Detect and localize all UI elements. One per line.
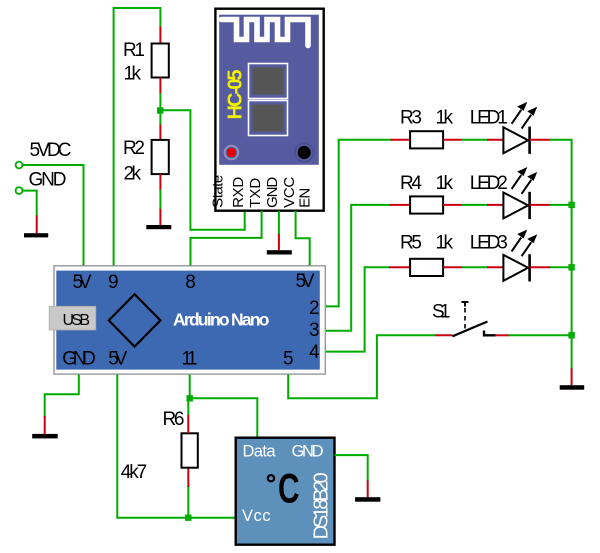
svg-text:Data: Data: [243, 443, 277, 461]
wire red ground lead Arduino GND: [44, 416, 46, 434]
wire junction to RXD column: [160, 110, 245, 229]
wire red anode lead LED2: [487, 204, 503, 206]
LED3 cathode bar: [528, 254, 531, 281]
diode LED1 triangle: [503, 127, 528, 153]
LED1 arrow 2: [522, 107, 537, 128]
wire red bottom lead R1: [159, 78, 161, 95]
wire R2 bottom green: [159, 190, 161, 210]
svg-text:GND: GND: [264, 177, 281, 208]
svg-text:GND: GND: [62, 349, 96, 370]
HC-05 PCB: [219, 15, 319, 165]
wire LED2 to right rail: [550, 204, 572, 206]
HC-05 chip 2 outline: [249, 101, 288, 136]
wire red ground lead DS18B20: [367, 480, 369, 497]
svg-text:State: State: [210, 175, 227, 208]
node junction R6 bottom: [185, 515, 191, 521]
svg-text:5VDC: 5VDC: [30, 140, 72, 161]
svg-text:5: 5: [283, 349, 294, 370]
svg-text:4: 4: [309, 342, 320, 363]
module HC-05 outer box: [215, 9, 323, 211]
svg-text:C: C: [278, 465, 300, 512]
LED1 arrow 1: [512, 103, 527, 124]
svg-text:R6: R6: [163, 409, 185, 430]
wire R6 bottom green: [187, 486, 189, 518]
wire red left lead S1: [436, 334, 453, 336]
resistor R3: [410, 131, 443, 148]
switch S1 actuator T-bar: [462, 302, 469, 307]
wire Arduino pin11 to DS18B20 Data: [190, 374, 258, 438]
svg-text:11: 11: [182, 349, 198, 370]
ground symbol R2: [146, 225, 171, 229]
wire LED1 to right rail: [550, 140, 572, 370]
switch S1 lever: [452, 322, 487, 337]
svg-text:LED2: LED2: [470, 173, 508, 194]
USB connector: [49, 306, 96, 330]
wire DS18B20 GND to ground: [335, 455, 368, 481]
svg-text:LED1: LED1: [470, 108, 508, 129]
wire red ground lead R2: [159, 209, 161, 225]
svg-text:DS18B20: DS18B20: [311, 472, 333, 539]
wire red left lead R5: [389, 266, 410, 268]
LED2 cathode bar: [528, 192, 531, 219]
wire red anode lead LED1: [487, 139, 503, 141]
svg-text:2: 2: [309, 298, 320, 319]
svg-text:RXD: RXD: [230, 177, 247, 208]
svg-text:HC-05: HC-05: [225, 70, 247, 120]
ground symbol Arduino GND: [32, 434, 58, 439]
wire HC-05 TXD to Arduino pin 8: [191, 211, 262, 266]
svg-text:4k7: 4k7: [121, 462, 148, 483]
wire red ground lead right rail: [571, 368, 573, 385]
diode LED3 triangle: [503, 255, 528, 281]
wire R6 top green to junction: [187, 398, 189, 414]
wire red left lead R3: [391, 139, 411, 141]
module DS18B20 box: [236, 438, 335, 545]
svg-text:5V: 5V: [296, 271, 315, 292]
node 5VDC terminal: [16, 162, 23, 169]
wire junction down to R2: [159, 110, 161, 125]
wire red anode lead LED3: [487, 266, 503, 268]
HC-05 chip 2 body: [253, 105, 284, 132]
resistor R5: [410, 259, 443, 276]
wire red right lead R3: [443, 139, 462, 141]
svg-text:EN: EN: [297, 188, 314, 208]
wire red cathode lead LED3: [530, 266, 551, 268]
resistor R2: [152, 140, 169, 174]
wire R5 to LED3: [462, 266, 489, 268]
wire 5VDC input to Arduino 5V top pin: [23, 165, 84, 266]
node junction LED3/rail: [568, 264, 574, 270]
wire red top lead R6: [187, 414, 189, 434]
wire red bottom lead R2: [159, 174, 161, 190]
wire Arduino pin5 to switch S1: [288, 335, 436, 398]
label degC: [268, 475, 274, 481]
wire HC-05 GND stub: [278, 211, 280, 235]
wire HC-05 RXD stub: [244, 211, 246, 231]
wire red top lead R2: [159, 125, 161, 140]
LED3 arrow 2: [522, 235, 537, 256]
wire R1 bottom to junction: [159, 93, 161, 110]
LED1 cathode bar: [528, 127, 531, 154]
switch S1 actuator dashed stem: [464, 308, 466, 330]
wire red ground lead HC-05: [278, 234, 280, 250]
wire GND input down: [23, 191, 37, 217]
HC-05 chip 1 outline: [249, 64, 288, 99]
wire pin9 up and over to R1 top: [114, 8, 161, 266]
LED2 arrow 2: [522, 173, 537, 194]
svg-text:3: 3: [309, 320, 320, 341]
svg-text:GND: GND: [292, 443, 324, 461]
resistor R4: [410, 196, 443, 213]
wire red bottom lead R6: [187, 468, 189, 487]
svg-text:9: 9: [108, 272, 119, 293]
node junction LED2/rail: [568, 202, 574, 208]
svg-text:Arduino Nano: Arduino Nano: [173, 310, 270, 330]
svg-text:R5: R5: [400, 232, 422, 253]
ground symbol HC-05: [267, 250, 292, 254]
wire red right lead S1: [496, 334, 510, 336]
svg-text:S1: S1: [432, 301, 451, 322]
wire red cathode lead LED2: [530, 204, 551, 206]
svg-text:8: 8: [185, 272, 196, 293]
resistor R1: [152, 44, 169, 78]
wire Arduino pin3 to R4 row: [326, 205, 390, 331]
wire Arduino 5V bottom pin to DS18B20 Vcc: [117, 374, 235, 518]
svg-text:R3: R3: [400, 108, 422, 129]
wire R3 to LED1: [462, 139, 489, 141]
node junction S1/rail: [568, 332, 574, 338]
svg-text:VCC: VCC: [281, 177, 298, 208]
node GND terminal: [16, 187, 23, 194]
wire Arduino GND pin to ground: [45, 374, 79, 417]
svg-text:TXD: TXD: [247, 178, 264, 208]
svg-text:R4: R4: [400, 173, 422, 194]
ground symbol DS18B20: [355, 497, 380, 502]
svg-text:R2: R2: [123, 138, 145, 159]
svg-text:R1: R1: [123, 40, 145, 61]
svg-text:Vcc: Vcc: [242, 507, 271, 525]
wire red ground lead of GND input: [36, 215, 38, 233]
LED2 arrow 1: [512, 168, 527, 189]
wire red cathode lead LED1: [530, 139, 551, 141]
wire LED3 to right rail: [550, 266, 572, 268]
wire Arduino pin4 to R5 row: [326, 267, 390, 351]
wire red right lead R4: [443, 204, 462, 206]
HC-05 chip 1 body: [253, 68, 284, 95]
HC-05 button: [295, 143, 313, 161]
svg-text:GND: GND: [29, 170, 67, 191]
svg-text:5V: 5V: [108, 349, 127, 370]
resistor R6: [182, 433, 198, 467]
svg-text:1k: 1k: [124, 64, 142, 85]
svg-text:5V: 5V: [73, 272, 92, 293]
svg-text:1k: 1k: [436, 173, 454, 194]
HC-05 antenna trace: [222, 20, 309, 46]
wire red right lead R5: [443, 266, 462, 268]
svg-text:USB: USB: [63, 312, 91, 329]
module Arduino Nano outer box: [54, 266, 325, 374]
node junction R1/R2: [157, 107, 163, 113]
wire HC-05 VCC to Arduino 5V top right: [296, 211, 310, 266]
svg-text:1k: 1k: [436, 108, 454, 129]
Arduino diamond: [109, 294, 161, 346]
svg-text:LED3: LED3: [470, 232, 508, 253]
svg-text:2k: 2k: [124, 164, 142, 185]
wire Arduino pin2 to R3 row: [326, 140, 392, 307]
HC-05 red LED: [225, 146, 239, 160]
wire red left lead R4: [389, 204, 410, 206]
diode LED2 triangle: [503, 193, 528, 219]
wire R4 to LED2: [462, 204, 489, 206]
Arduino Nano blue body: [56, 271, 320, 370]
ground symbol GND input: [24, 233, 48, 237]
wire S1 to right rail: [509, 334, 572, 336]
wire red top lead R1: [159, 27, 161, 44]
switch S1 right contact: [484, 331, 496, 336]
LED3 arrow 1: [512, 230, 527, 251]
ground symbol right rail: [560, 385, 585, 390]
node junction pin11/R6: [187, 395, 193, 401]
svg-text:1k: 1k: [436, 232, 454, 253]
